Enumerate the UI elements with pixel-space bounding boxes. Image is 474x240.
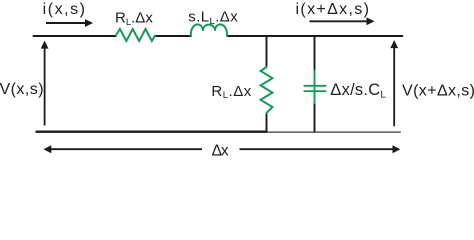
svg-text:V(x,s): V(x,s)	[0, 81, 44, 98]
svg-text:RL.Δx: RL.Δx	[115, 10, 153, 28]
svg-text:s.LL.Δx: s.LL.Δx	[188, 9, 238, 27]
svg-text:i(x+Δx,s): i(x+Δx,s)	[296, 1, 371, 18]
svg-text:Δx: Δx	[212, 143, 229, 156]
svg-text:RL.Δx: RL.Δx	[211, 83, 251, 101]
svg-text:Δx/s.CL: Δx/s.CL	[330, 81, 386, 101]
svg-text:V(x+Δx,s): V(x+Δx,s)	[402, 83, 474, 100]
svg-text:i(x,s): i(x,s)	[43, 1, 87, 18]
